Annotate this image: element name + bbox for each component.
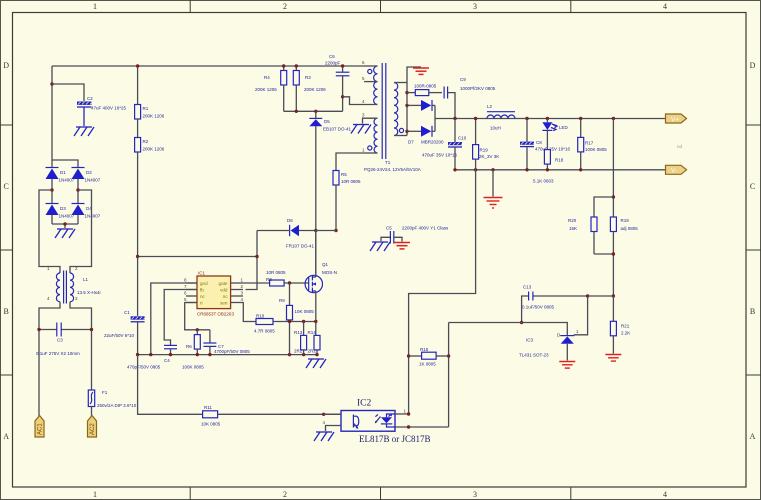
resistor R6 (182, 330, 204, 370)
svg-text:R1: R1 (143, 106, 149, 111)
wire IC2 right top pin (395, 413, 409, 415)
svg-text:10K 0805: 10K 0805 (295, 309, 315, 314)
svg-text:R20: R20 (568, 218, 577, 223)
svg-text:2: 2 (283, 2, 287, 11)
svg-text:200K 1206: 200K 1206 (143, 147, 165, 152)
resistor R21 (610, 296, 630, 354)
ground R21 red (605, 355, 621, 362)
diode D1 1N4007 (46, 168, 75, 204)
diode D5 EB107 (309, 111, 351, 131)
node out rail R17 (579, 117, 582, 120)
IC1 CR6853T (184, 271, 244, 317)
node ref row right (612, 294, 615, 297)
T1 secondary winding (394, 83, 398, 136)
wire IC1 gnd pin8 to rail (151, 283, 197, 355)
capacitor C5 Y1 (381, 226, 449, 244)
svg-text:4700pF/50V 0805: 4700pF/50V 0805 (214, 349, 250, 354)
wire IC1 gate pin1 to R8 (243, 282, 270, 284)
IC2 optocoupler (341, 411, 395, 432)
resistor R9 gate pulldown (279, 283, 314, 355)
T1 core (381, 63, 383, 159)
svg-text:13.5 X-Hx4i: 13.5 X-Hx4i (77, 290, 101, 295)
IC2 phototransistor (352, 415, 354, 428)
svg-text:adj 0805: adj 0805 (621, 226, 639, 231)
diode D6 FR107 (257, 218, 336, 249)
svg-text:gate: gate (219, 281, 228, 286)
node rail R14 end (315, 353, 318, 356)
ground below C2 (74, 127, 94, 136)
resistor R4 (255, 66, 287, 111)
wire C2 branch (52, 84, 84, 101)
wire primary gnd rail (138, 354, 317, 356)
node sense row R9 cross (288, 320, 291, 323)
svg-text:TL431 SOT-23: TL431 SOT-23 (519, 353, 549, 358)
capacitor C8 (520, 119, 571, 170)
ground secondary winding red (413, 68, 429, 74)
inductor L2 (487, 104, 515, 131)
node R4 top (282, 64, 285, 67)
svg-text:100K 0805: 100K 0805 (182, 365, 204, 370)
wire cathode row (449, 323, 568, 336)
svg-text:D: D (3, 61, 9, 70)
frame right zone ticks (746, 125, 761, 375)
wire R20 branch (594, 197, 613, 217)
svg-text:1K 0805: 1K 0805 (419, 362, 436, 367)
resistor R8 (266, 270, 309, 286)
node drain cross on D6 row (314, 229, 317, 232)
node rail C7 (208, 353, 211, 356)
wire fb long bottom run (138, 355, 203, 415)
svg-text:vdd: vdd (220, 288, 228, 293)
node IC2 anode wire (407, 425, 410, 428)
node minus rail R17 (579, 168, 582, 171)
svg-text:C6: C6 (329, 54, 335, 59)
svg-text:MOS-N: MOS-N (322, 270, 337, 275)
node bridge bottom center (63, 222, 66, 225)
svg-text:LED: LED (559, 125, 569, 130)
svg-text:nc: nc (223, 294, 229, 299)
svg-text:C: C (4, 182, 9, 191)
svg-text:4: 4 (663, 490, 667, 499)
svg-text:PQ26-24V24, 12V5A/5V10A: PQ26-24V24, 12V5A/5V10A (364, 167, 421, 172)
ground secondary red main (484, 198, 503, 209)
svg-text:5.1K 0603: 5.1K 0603 (533, 179, 554, 184)
wire D6 cathode to Vdd (246, 231, 258, 290)
zone number labels top (93, 2, 667, 11)
node out rail feedback tap (612, 117, 615, 120)
svg-text:CR6853T OB2263: CR6853T OB2263 (197, 312, 234, 317)
svg-text:R6: R6 (186, 344, 192, 349)
svg-text:F1: F1 (102, 390, 108, 395)
node C6 top (341, 64, 344, 67)
node R1 top on bus (136, 64, 139, 67)
svg-text:R17: R17 (585, 141, 594, 146)
T1 pin 5 stub (364, 81, 378, 83)
wire output plus rail (435, 118, 666, 120)
wire D7 cathode rail (434, 105, 436, 131)
node minus rail C10 (453, 168, 456, 171)
svg-text:sen: sen (220, 301, 228, 306)
wire aux pin1 to R5 (336, 153, 364, 171)
diode D7a MBR20200 (407, 100, 435, 111)
ground C5 primary side (370, 242, 390, 251)
svg-text:2200pF: 2200pF (325, 61, 341, 66)
resistor R5 (333, 171, 361, 231)
zone letter labels right (750, 61, 756, 441)
wire IC2 right bottom pin (395, 426, 449, 428)
T1 pin 3 stub (363, 118, 378, 123)
node out rail dummy R top (474, 117, 477, 120)
svg-text:R21: R21 (621, 324, 630, 329)
svg-text:AC1: AC1 (38, 423, 44, 435)
wire clamp RC bottom row (284, 110, 343, 112)
node divider split (612, 195, 615, 198)
transformer T1 (343, 60, 421, 172)
svg-text:R2: R2 (143, 139, 149, 144)
resistor R3 (293, 66, 326, 111)
wire IC2 left pin (324, 413, 341, 415)
svg-text:4: 4 (663, 2, 667, 11)
svg-text:470uF 25V 10*16: 470uF 25V 10*16 (535, 147, 571, 152)
svg-text:T1: T1 (385, 160, 391, 165)
wire opto emitter riser (448, 323, 450, 428)
svg-text:D3: D3 (60, 206, 66, 211)
svg-text:470pF/50V 0805: 470pF/50V 0805 (127, 365, 161, 370)
svg-text:B: B (750, 307, 755, 316)
capacitor C9 snubber (444, 77, 496, 119)
svg-text:C10: C10 (458, 136, 467, 141)
resistor R14 (308, 322, 321, 355)
svg-text:ri: ri (200, 301, 203, 306)
svg-text:10R 0805: 10R 0805 (341, 179, 361, 184)
wire Q1 source down (315, 291, 317, 322)
svg-text:R3: R3 (305, 75, 311, 80)
T1 secondary bottom stub (394, 135, 407, 137)
svg-text:C13: C13 (523, 285, 532, 290)
bridge rectifier top rail (52, 160, 78, 167)
IC3 TL431 (519, 329, 579, 361)
frame top zone ticks (190, 0, 571, 13)
node anode rail D7b (405, 130, 408, 133)
wire R2 down to Vdd bus (137, 152, 139, 257)
svg-text:R15: R15 (420, 347, 429, 352)
svg-text:C9: C9 (460, 77, 466, 82)
node divider bottom (612, 252, 615, 255)
svg-text:A: A (3, 432, 9, 441)
svg-text:R10: R10 (256, 314, 265, 319)
node out rail LED (546, 117, 549, 120)
node rail R6 (196, 353, 199, 356)
svg-text:2K_3V 3K: 2K_3V 3K (479, 154, 499, 159)
node pin4 tap on C6 stem (341, 95, 344, 98)
svg-text:200K 1206: 200K 1206 (304, 87, 326, 92)
diode D4 1N4007 (72, 204, 101, 225)
zone number labels bottom (93, 490, 667, 499)
svg-text:C5: C5 (386, 226, 392, 231)
T1 pin 1 polarity dot (368, 146, 372, 150)
svg-text:gnd: gnd (200, 281, 208, 286)
node minus rail gnd (491, 168, 494, 171)
svg-text:C4: C4 (164, 358, 170, 363)
wire IC1 fb pin7 down (164, 290, 197, 346)
svg-text:250v/2A DIP 3.6*10: 250v/2A DIP 3.6*10 (97, 403, 137, 408)
T1 primary upper winding (374, 66, 378, 105)
node R15 right (447, 354, 450, 357)
T1 secondary polarity dot (399, 128, 403, 132)
capacitor C13 (522, 285, 555, 323)
svg-text:IC1: IC1 (198, 271, 206, 276)
svg-text:D6: D6 (287, 218, 293, 223)
svg-text:R11: R11 (204, 405, 212, 410)
node IC2 collector (407, 412, 410, 415)
svg-text:R19: R19 (621, 218, 630, 223)
T1 pin 4 stub (343, 97, 378, 105)
svg-text:C2: C2 (87, 96, 93, 101)
svg-text:200K 1206: 200K 1206 (143, 114, 165, 119)
frame left zone ticks (0, 125, 13, 375)
svg-text:2R2: 2R2 (294, 349, 303, 354)
svg-text:1: 1 (93, 2, 97, 11)
wire bridge AC right to choke (70, 190, 92, 273)
node C2 tap (50, 82, 53, 85)
svg-text:D1: D1 (60, 170, 66, 175)
IC1 pin stubs right (231, 283, 243, 303)
svg-text:1000Pf/2KV 0805: 1000Pf/2KV 0805 (460, 86, 496, 91)
svg-text:R8: R8 (266, 277, 272, 282)
port AC1 (35, 416, 44, 438)
svg-text:15K: 15K (569, 226, 577, 231)
svg-text:470uF 35V 10*16: 470uF 35V 10*16 (422, 153, 458, 158)
port V minus (666, 165, 687, 174)
svg-text:D2: D2 (86, 170, 92, 175)
IC2 led (381, 417, 392, 423)
wire choke bottom left (39, 302, 60, 416)
node C3 right (90, 328, 93, 331)
T1 pin 1 stub (364, 152, 378, 154)
svg-text:AC2: AC2 (90, 423, 96, 435)
wire secondary gnd drop (492, 170, 494, 197)
svg-text:L1: L1 (83, 277, 89, 282)
resistor R15 (409, 347, 449, 367)
svg-text:2.2K: 2.2K (621, 331, 630, 336)
node out rail snubber cap (453, 117, 456, 120)
node IC2 left pin (322, 413, 325, 416)
ground bridge negative (55, 229, 75, 238)
svg-text:B: B (4, 307, 9, 316)
node minus rail dummy R (474, 168, 477, 171)
capacitor C10 (422, 119, 467, 170)
svg-text:V-: V- (671, 168, 677, 175)
LED indicator (542, 119, 568, 131)
svg-text:2200pF 400V Y1 Class: 2200pF 400V Y1 Class (402, 226, 449, 231)
resistor R18 (533, 131, 564, 184)
capacitor C7 (203, 330, 250, 355)
inductor L1 common mode choke (47, 266, 101, 304)
node rail C4 (169, 353, 172, 356)
svg-text:D5: D5 (324, 119, 330, 124)
svg-text:2R2: 2R2 (308, 349, 317, 354)
node rail R9 leg (288, 353, 291, 356)
node C3 left (37, 328, 40, 331)
wire Vdd bus (138, 256, 257, 258)
ground TL431 red (559, 362, 575, 369)
node minus rail C8 (525, 168, 528, 171)
node gate (288, 281, 291, 284)
svg-text:200K 1206: 200K 1206 (255, 87, 277, 92)
node out rail C8 (525, 117, 528, 120)
resistor R17 (578, 119, 608, 170)
node C13 leg on cathode row (520, 321, 523, 324)
T1 primary lower winding (374, 118, 378, 153)
svg-text:R13: R13 (294, 330, 303, 335)
node ref drop (586, 294, 589, 297)
node minus rail R18 (546, 168, 549, 171)
svg-text:0.1uF/50V 0805: 0.1uF/50V 0805 (522, 305, 555, 310)
resistor R16 snubber (407, 84, 442, 96)
resistor R1 (135, 66, 165, 119)
svg-text:100R-0805: 100R-0805 (414, 84, 437, 89)
svg-text:L2: L2 (487, 104, 493, 109)
diode D2 1N4007 (72, 168, 101, 204)
node R15 left (407, 354, 410, 357)
svg-text:0.1uF 275V X2 10mm: 0.1uF 275V X2 10mm (36, 351, 80, 356)
resistor R2 (135, 119, 165, 152)
svg-text:nc: nc (200, 294, 206, 299)
capacitor C2 (77, 96, 127, 126)
svg-text:2: 2 (283, 490, 287, 499)
wire output minus rail (455, 169, 666, 171)
wire secondary rectifier anode rail (406, 83, 408, 136)
resistor R12 dummy load (473, 119, 500, 170)
svg-text:1N4007: 1N4007 (85, 214, 101, 219)
svg-text:IC3: IC3 (526, 338, 534, 343)
resistor R19 adj (610, 217, 638, 296)
ground IC2 pin4 (314, 432, 334, 441)
ground T1 pin3 (351, 125, 371, 134)
wire feedback divider vertical (612, 119, 614, 218)
svg-text:47uF 400V 16*25: 47uF 400V 16*25 (91, 106, 127, 111)
ground C5 secondary side red (394, 243, 410, 249)
wire secondary top pin to ground (407, 67, 421, 83)
T1 secondary top stub (394, 82, 407, 84)
svg-text:R4: R4 (264, 75, 270, 80)
svg-text:R9: R9 (279, 298, 285, 303)
svg-text:D7: D7 (408, 140, 414, 145)
svg-text:22uF/50V 6*10: 22uF/50V 6*10 (104, 333, 135, 338)
svg-text:3: 3 (473, 490, 477, 499)
svg-text:10uH: 10uH (490, 126, 501, 131)
svg-text:FR107 DO-41: FR107 DO-41 (286, 244, 315, 249)
svg-text:R5: R5 (341, 172, 347, 177)
diode D7b MBR20200 (407, 126, 444, 145)
svg-text:10K 0805: 10K 0805 (201, 422, 221, 427)
capacitor C3 X2 (36, 323, 92, 357)
svg-text:nd: nd (677, 144, 683, 149)
wire R20 bottom join (594, 253, 613, 255)
wire TL431 ref leg (574, 296, 588, 335)
capacitor C6 (325, 54, 349, 111)
svg-text:fb: fb (200, 288, 204, 293)
resistor R20 (568, 217, 597, 254)
T1 pin 6 stub (364, 65, 378, 67)
node clamp row D5 (314, 110, 317, 113)
node ri row R6 (196, 328, 199, 331)
node sense row R13 (302, 320, 305, 323)
capacitor C1 (104, 257, 145, 355)
wire opto collector riser (409, 170, 476, 414)
frame bottom zone ticks (190, 487, 571, 500)
svg-text:R19: R19 (480, 148, 489, 153)
svg-text:EL817B or JC817B: EL817B or JC817B (359, 434, 431, 444)
svg-text:V+: V+ (671, 116, 679, 123)
svg-text:Q1: Q1 (322, 262, 329, 267)
svg-text:R18: R18 (555, 158, 564, 163)
zone letter labels left (3, 61, 9, 441)
svg-text:4.7R 0805: 4.7R 0805 (254, 329, 275, 334)
svg-text:100K 0805: 100K 0805 (585, 147, 607, 152)
wire top HV bus (52, 65, 364, 67)
node R3 top (295, 64, 298, 67)
T1 pin 6 polarity dot (368, 69, 372, 73)
resistor R10 sense series (254, 314, 316, 334)
fuse F1 (88, 390, 136, 416)
IC2 led arrows (376, 417, 381, 423)
svg-text:C3: C3 (57, 338, 63, 343)
wire choke bottom right (70, 302, 92, 390)
node anode rail D7a (405, 104, 408, 107)
svg-text:MBR20200: MBR20200 (421, 140, 444, 145)
svg-text:IC2: IC2 (357, 399, 372, 409)
transistor Q1 MOS-N (305, 262, 337, 293)
node anode rail snubber (405, 91, 408, 94)
svg-text:3: 3 (473, 2, 477, 11)
wire IC1 ri pin5 down (185, 303, 210, 330)
bridge bottom rail (52, 224, 78, 228)
node rail C1 (136, 353, 139, 356)
svg-text:D: D (750, 61, 756, 70)
resistor R13 (294, 322, 307, 355)
node R5 bottom on D6 row (334, 229, 337, 232)
diode D3 1N4007 (46, 204, 75, 225)
wire drain vertical (315, 126, 317, 277)
IC1 pin stubs left (186, 283, 197, 303)
node bridge AC left (50, 188, 53, 191)
svg-text:1: 1 (93, 490, 97, 499)
node Vdd at R2 chain (136, 255, 139, 258)
capacitor C4 (127, 345, 177, 369)
resistor R11 (201, 405, 341, 427)
wire bridge AC left to choke (39, 190, 60, 273)
ground primary rail (306, 359, 326, 368)
svg-text:C1: C1 (124, 310, 130, 315)
svg-text:EB107 DO-41: EB107 DO-41 (323, 127, 352, 132)
node sense row source (314, 320, 317, 323)
port V plus (666, 114, 687, 123)
svg-text:A: A (750, 432, 756, 441)
svg-text:1N4007: 1N4007 (85, 178, 101, 183)
svg-text:10R 0805: 10R 0805 (266, 270, 286, 275)
wire Q1 drain jog (315, 231, 317, 278)
node rail pin8 leg (149, 353, 152, 356)
svg-text:C: C (750, 182, 755, 191)
wire IC2 pin4 stub (326, 426, 342, 432)
svg-text:C8: C8 (536, 140, 542, 145)
wire IC1 sen pin4 to R10 (243, 303, 256, 322)
wire left DC+ vertical (51, 66, 53, 160)
node Vdd at D6 leg (255, 255, 258, 258)
port AC2 (88, 416, 97, 438)
IC1 pin numbers (184, 278, 244, 303)
